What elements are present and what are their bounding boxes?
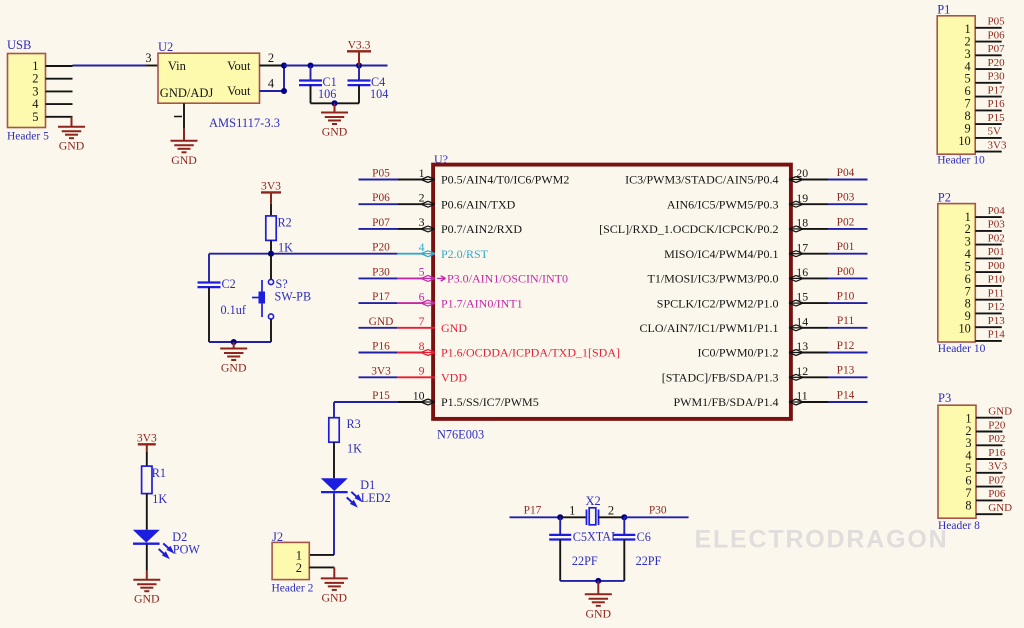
svg-text:19: 19 [796, 191, 808, 205]
svg-text:GND: GND [988, 406, 1012, 418]
svg-text:2: 2 [268, 51, 274, 65]
svg-text:P04: P04 [837, 167, 855, 179]
svg-text:GND: GND [322, 590, 348, 604]
svg-text:6: 6 [419, 289, 425, 303]
svg-text:4: 4 [419, 240, 425, 254]
wire pin4 up to pin2 [283, 66, 285, 92]
P2 Header 10 pin 1 lead / net P04 [975, 205, 1005, 217]
ground (USB pin5) [58, 117, 85, 153]
wire R2 junction to switch [270, 254, 272, 280]
ground (C1 C4) [321, 103, 348, 138]
P3 Header 8 pin 1 lead / net GND [976, 406, 1012, 418]
P3 Header 8 pin 7 lead / net P06 [976, 488, 1006, 500]
net label P02 / pin 18 (right) [599, 216, 867, 237]
svg-text:P17: P17 [372, 291, 390, 303]
P1 Header 10 pin 8 lead / net P15 [975, 112, 1005, 124]
capacitor C4 104 [348, 75, 389, 101]
net label P06 / pin 2 (left) [359, 191, 516, 212]
net label P01 / pin 17 (right) [664, 240, 867, 261]
svg-text:X2: X2 [586, 494, 601, 508]
wire switch to bottom [270, 319, 272, 342]
net label P30 / pin 5 (left) [359, 265, 569, 286]
svg-text:P1.7/AIN0/INT1: P1.7/AIN0/INT1 [441, 296, 523, 310]
svg-text:11: 11 [796, 389, 807, 403]
junction [595, 578, 601, 584]
svg-text:V3.3: V3.3 [348, 38, 371, 51]
svg-text:P20: P20 [988, 419, 1006, 431]
wire 3V3 to R1 [146, 444, 148, 466]
svg-text:SPCLK/IC2/PWM2/P1.0: SPCLK/IC2/PWM2/P1.0 [657, 296, 779, 310]
ground (U2) [171, 129, 198, 167]
svg-text:2: 2 [419, 191, 425, 205]
svg-text:P16: P16 [988, 447, 1006, 459]
junction [356, 62, 362, 68]
wire USB.1 to U2 Vin [73, 65, 147, 67]
P2 Header 10 pin 6 lead / net P10 [975, 274, 1005, 286]
svg-text:P3.0/AIN1/OSCIN/INT0: P3.0/AIN1/OSCIN/INT0 [447, 272, 568, 286]
wire xtal ground bus [560, 580, 624, 582]
P2 Header 10 pin 8 lead / net P12 [975, 301, 1004, 313]
svg-text:Header 10: Header 10 [937, 155, 985, 167]
wire C1 bottom lead [310, 85, 312, 103]
wire V3.3 rail [284, 65, 388, 67]
svg-text:XTAL: XTAL [587, 529, 619, 543]
junction [331, 100, 337, 106]
net label P14 / pin 11 (right) [673, 389, 867, 410]
ground (xtal) [585, 581, 612, 620]
crystal pin1 lead [560, 504, 586, 518]
svg-text:8: 8 [965, 498, 971, 512]
P1 Header 10 pin 2 lead / net P06 [975, 29, 1005, 41]
wire R1 to D2 [146, 494, 148, 530]
svg-text:4: 4 [268, 77, 275, 91]
svg-text:GND: GND [322, 125, 348, 139]
P1 Header 10 pin 4 lead / net P20 [975, 57, 1005, 69]
net label P13 / pin 12 (right) [662, 364, 868, 385]
svg-text:N76E003: N76E003 [437, 428, 484, 442]
U2 pin1 wire to ground [174, 103, 184, 128]
svg-text:P14: P14 [988, 329, 1006, 341]
svg-text:3V3: 3V3 [988, 139, 1007, 151]
wire C5 bottom lead [559, 540, 561, 581]
svg-text:Header 2: Header 2 [272, 583, 314, 595]
svg-text:P11: P11 [837, 315, 855, 327]
net label P10 / pin 15 (right) [657, 290, 868, 311]
wire C6 top lead [623, 517, 625, 535]
P2 Header 10 pin 2 lead / net P03 [975, 219, 1005, 231]
capacitor C1 106 [299, 75, 337, 101]
svg-text:3V3: 3V3 [988, 461, 1007, 473]
P2 Header 10 pin 7 lead / net P11 [975, 288, 1004, 300]
wire R2 to junction [270, 240, 272, 253]
svg-text:P06: P06 [372, 192, 390, 204]
svg-text:P30: P30 [988, 71, 1006, 83]
capacitor C6 22PF [613, 530, 661, 568]
svg-text:P1: P1 [937, 3, 950, 17]
svg-text:P0.6/AIN/TXD: P0.6/AIN/TXD [441, 197, 516, 211]
net label P15 / pin 10 (left) [359, 388, 539, 409]
svg-text:1K: 1K [152, 492, 167, 506]
svg-text:P20: P20 [372, 242, 390, 254]
svg-text:P06: P06 [988, 488, 1006, 500]
net label P00 / pin 16 (right) [647, 265, 867, 286]
P3 Header 8 pin 2 lead / net P20 [976, 419, 1006, 431]
svg-text:R1: R1 [152, 466, 166, 480]
svg-text:18: 18 [796, 216, 808, 230]
svg-text:P01: P01 [837, 241, 855, 253]
wire P15 net to R3 [334, 402, 359, 418]
svg-text:IC3/PWM3/STADC/AIN5/P0.4: IC3/PWM3/STADC/AIN5/P0.4 [625, 173, 778, 187]
wire D1 to J2 [309, 493, 334, 555]
connector USB Header 5 [7, 38, 49, 143]
svg-text:R3: R3 [347, 417, 361, 431]
wire RST net horizontal [209, 253, 359, 255]
svg-text:10: 10 [959, 322, 971, 336]
wire R3 to D1 [333, 442, 335, 478]
svg-text:GND: GND [59, 139, 85, 153]
connector P2 Header 10 [938, 191, 986, 356]
svg-text:P13: P13 [988, 315, 1006, 327]
svg-text:7: 7 [419, 314, 425, 328]
wire 3V3 to R2 [270, 192, 272, 216]
svg-text:[STADC]/FB/SDA/P1.3: [STADC]/FB/SDA/P1.3 [662, 371, 779, 385]
svg-text:P02: P02 [988, 232, 1005, 244]
P3 Header 8 pin 4 lead / net P16 [976, 447, 1006, 459]
net label P16 / pin 8 (left) [359, 339, 621, 360]
connector J2 Header 2 [272, 530, 314, 595]
svg-text:[SCL]/RXD_1.OCDCK/ICPCK/P0.2: [SCL]/RXD_1.OCDCK/ICPCK/P0.2 [599, 222, 778, 236]
svg-text:P02: P02 [837, 216, 855, 228]
svg-text:P30: P30 [649, 505, 667, 517]
svg-text:AMS1117-3.3: AMS1117-3.3 [209, 116, 280, 130]
P2 Header 10 pin 9 lead / net P13 [975, 315, 1005, 327]
wire down to C2 [208, 254, 210, 283]
svg-text:C5: C5 [573, 530, 587, 544]
svg-text:P3: P3 [938, 391, 951, 405]
svg-text:GND: GND [221, 361, 247, 375]
ground (C2/SW) [220, 342, 247, 375]
svg-text:P01: P01 [988, 246, 1005, 258]
svg-text:GND: GND [134, 592, 160, 606]
power V3.3 [347, 38, 371, 51]
svg-text:AIN6/IC5/PWM5/P0.3: AIN6/IC5/PWM5/P0.3 [667, 197, 779, 211]
svg-text:17: 17 [796, 240, 808, 254]
svg-text:P17: P17 [988, 84, 1006, 96]
svg-text:2: 2 [608, 504, 614, 518]
wire C2 bottom lead [208, 287, 210, 342]
U2 pin 4 lead [260, 77, 285, 92]
P1 Header 10 pin 5 lead / net P30 [975, 71, 1005, 83]
svg-text:P11: P11 [988, 288, 1005, 300]
svg-text:P17: P17 [524, 505, 542, 517]
power 3V3 (R1) [137, 431, 157, 444]
svg-text:3V3: 3V3 [137, 431, 157, 444]
P2 Header 10 pin 3 lead / net P02 [975, 232, 1004, 244]
svg-text:P03: P03 [988, 219, 1006, 231]
ground (D2) [133, 571, 160, 606]
wire C1-C4 ground bus [311, 102, 360, 104]
svg-text:P00: P00 [988, 260, 1006, 272]
svg-text:GND: GND [171, 153, 197, 167]
svg-text:22PF: 22PF [572, 554, 598, 568]
connector P3 Header 8 [938, 391, 980, 532]
svg-text:LED2: LED2 [361, 491, 391, 505]
svg-text:P15: P15 [372, 390, 390, 402]
pin 3 lead of U2 [145, 51, 158, 66]
wire stub to V3.3 [358, 52, 360, 66]
net label P30 (xtal) [624, 505, 688, 518]
P3 Header 8 pin 8 lead / net GND [976, 502, 1012, 514]
svg-text:GND: GND [988, 502, 1012, 514]
net label P05 / pin 1 (left) [359, 166, 570, 187]
svg-text:ELECTRODRAGON: ELECTRODRAGON [695, 526, 949, 554]
svg-text:POW: POW [173, 543, 201, 557]
svg-text:1K: 1K [347, 442, 362, 456]
net label 3V3 / pin 9 (left) [359, 364, 468, 385]
svg-text:3V3: 3V3 [371, 365, 391, 377]
svg-text:P04: P04 [988, 205, 1006, 217]
svg-text:P15: P15 [988, 112, 1006, 124]
svg-text:P12: P12 [837, 340, 855, 352]
svg-text:U2: U2 [158, 40, 173, 54]
svg-text:CLO/AIN7/IC1/PWM1/P1.1: CLO/AIN7/IC1/PWM1/P1.1 [639, 321, 778, 335]
net label GND / pin 7 (left) [359, 314, 468, 335]
ground (J2) [321, 567, 348, 604]
wire C1 top lead [310, 66, 312, 81]
svg-text:P12: P12 [988, 301, 1005, 313]
svg-text:P05: P05 [372, 168, 390, 180]
svg-text:VDD: VDD [441, 371, 467, 385]
svg-text:3: 3 [419, 215, 425, 229]
svg-text:P14: P14 [837, 389, 855, 401]
junction [557, 514, 563, 520]
svg-text:P0.5/AIN4/T0/IC6/PWM2: P0.5/AIN4/T0/IC6/PWM2 [441, 173, 569, 187]
junction [231, 339, 237, 345]
svg-text:3V3: 3V3 [261, 179, 281, 192]
svg-text:MISO/IC4/PWM4/P0.1: MISO/IC4/PWM4/P0.1 [664, 247, 778, 261]
regulator U2 AMS1117-3.3 [158, 40, 280, 130]
svg-text:P13: P13 [837, 365, 855, 377]
wire C4 top lead [358, 66, 360, 81]
LED D2 POW [133, 530, 201, 560]
svg-text:Header 10: Header 10 [938, 343, 986, 355]
junction [281, 88, 287, 94]
svg-text:1K: 1K [278, 241, 293, 255]
P1 Header 10 pin 7 lead / net P16 [975, 98, 1005, 110]
net label P17 / pin 6 (left) [359, 289, 523, 310]
P1 Header 10 pin 6 lead / net P17 [975, 84, 1005, 96]
P3 Header 8 pin 5 lead / net 3V3 [976, 461, 1008, 473]
svg-text:P10: P10 [988, 274, 1006, 286]
connector P1 Header 10 [937, 3, 985, 167]
svg-text:P07: P07 [988, 474, 1006, 486]
U2 pin 2 lead [260, 51, 285, 66]
svg-text:P2: P2 [938, 191, 951, 205]
wire bottom of C2/SW [209, 341, 271, 343]
svg-text:P02: P02 [988, 433, 1005, 445]
svg-text:C2: C2 [222, 277, 236, 291]
P1 Header 10 pin 1 lead / net P05 [975, 16, 1005, 28]
P2 Header 10 pin 5 lead / net P00 [975, 260, 1005, 272]
P3 Header 8 pin 6 lead / net P07 [976, 474, 1006, 486]
crystal X2 XTAL [586, 494, 619, 544]
svg-text:P1.5/SS/IC7/PWM5: P1.5/SS/IC7/PWM5 [441, 395, 539, 409]
svg-text:14: 14 [796, 314, 808, 328]
svg-text:R2: R2 [278, 216, 292, 230]
svg-text:P07: P07 [372, 217, 390, 229]
capacitor C5 22PF [549, 530, 598, 568]
svg-text:P20: P20 [988, 57, 1006, 69]
svg-text:9: 9 [419, 364, 425, 378]
svg-text:P2.0/RST: P2.0/RST [441, 247, 489, 261]
svg-text:16: 16 [796, 265, 808, 279]
wire C6 bottom lead [623, 540, 625, 581]
net label P17 (xtal) [510, 505, 561, 518]
resistor R2 1K [266, 216, 293, 255]
svg-text:C6: C6 [637, 530, 651, 544]
svg-text:5: 5 [32, 110, 38, 124]
svg-text:GND: GND [586, 606, 612, 620]
resistor R3 1K [329, 417, 362, 456]
svg-text:P1.6/OCDDA/ICPDA/TXD_1[SDA]: P1.6/OCDDA/ICPDA/TXD_1[SDA] [441, 346, 620, 360]
svg-text:1: 1 [569, 504, 575, 518]
junction [281, 62, 287, 68]
svg-text:1: 1 [419, 166, 425, 180]
junction [621, 514, 627, 520]
svg-text:104: 104 [370, 87, 388, 101]
svg-text:IC0/PWM0/P1.2: IC0/PWM0/P1.2 [697, 346, 778, 360]
svg-text:3: 3 [145, 51, 151, 65]
svg-text:2: 2 [296, 561, 302, 575]
USB pin leads [46, 66, 73, 117]
svg-text:Vout: Vout [227, 84, 251, 98]
svg-text:GND/ADJ: GND/ADJ [160, 86, 214, 100]
J2 pin2 lead [309, 566, 334, 568]
svg-text:SW-PB: SW-PB [275, 290, 312, 304]
svg-text:22PF: 22PF [636, 554, 662, 568]
svg-text:T1/MOSI/IC3/PWM3/P0.0: T1/MOSI/IC3/PWM3/P0.0 [647, 272, 778, 286]
P3 Header 8 pin 3 lead / net P02 [976, 433, 1005, 445]
P2 Header 10 pin 10 lead / net P14 [975, 329, 1005, 341]
svg-text:12: 12 [796, 364, 808, 378]
svg-text:Header 5: Header 5 [7, 131, 49, 143]
svg-text:GND: GND [441, 321, 467, 335]
net label P04 / pin 20 (right) [625, 166, 867, 187]
P1 Header 10 pin 3 lead / net P07 [975, 43, 1005, 55]
svg-text:Header 8: Header 8 [938, 520, 980, 532]
power 3V3 (R2) [261, 179, 281, 192]
svg-text:P10: P10 [837, 291, 855, 303]
junction [268, 251, 274, 257]
svg-text:P16: P16 [988, 98, 1006, 110]
resistor R1 1K [142, 466, 168, 506]
switch S? SW-PB [252, 277, 311, 319]
svg-text:10: 10 [958, 134, 970, 148]
svg-text:P07: P07 [988, 43, 1006, 55]
svg-text:106: 106 [318, 87, 336, 101]
net label P12 / pin 13 (right) [697, 339, 867, 360]
svg-text:0.1uf: 0.1uf [221, 303, 247, 317]
svg-text:P0.7/AIN2/RXD: P0.7/AIN2/RXD [441, 222, 522, 236]
P2 Header 10 pin 4 lead / net P01 [975, 246, 1004, 258]
svg-text:USB: USB [7, 38, 31, 52]
wire C4 bottom lead [358, 85, 360, 103]
P1 Header 10 pin 9 lead / net 5V [975, 126, 1002, 138]
svg-text:PWM1/FB/SDA/P1.4: PWM1/FB/SDA/P1.4 [673, 395, 778, 409]
svg-text:P06: P06 [988, 29, 1006, 41]
P1 Header 10 pin 10 lead / net 3V3 [975, 139, 1007, 151]
svg-text:P16: P16 [372, 341, 390, 353]
crystal pin2 lead [599, 504, 625, 518]
svg-text:20: 20 [796, 166, 808, 180]
wire C5 top lead [559, 517, 561, 535]
net label P03 / pin 19 (right) [667, 191, 868, 212]
capacitor C2 0.1uf [198, 277, 247, 317]
LED D1 LED2 [321, 478, 391, 508]
net label P20 / pin 4 (left) [359, 240, 489, 261]
svg-text:Vout: Vout [227, 59, 251, 73]
svg-text:P00: P00 [837, 266, 855, 278]
svg-text:GND: GND [369, 316, 394, 328]
net label P11 / pin 14 (right) [639, 314, 867, 335]
svg-text:Vin: Vin [168, 59, 187, 73]
svg-text:10: 10 [413, 388, 425, 402]
svg-text:8: 8 [419, 339, 425, 353]
svg-text:13: 13 [796, 339, 808, 353]
svg-text:P30: P30 [372, 266, 390, 278]
svg-text:5V: 5V [988, 126, 1002, 138]
svg-text:P05: P05 [988, 16, 1006, 28]
net label P07 / pin 3 (left) [359, 215, 523, 236]
wire D2 to ground [146, 545, 148, 571]
svg-text:15: 15 [796, 290, 808, 304]
MCU U? N76E003 [433, 152, 791, 442]
svg-text:5: 5 [419, 265, 425, 279]
junction [307, 62, 313, 68]
svg-text:P03: P03 [837, 192, 855, 204]
